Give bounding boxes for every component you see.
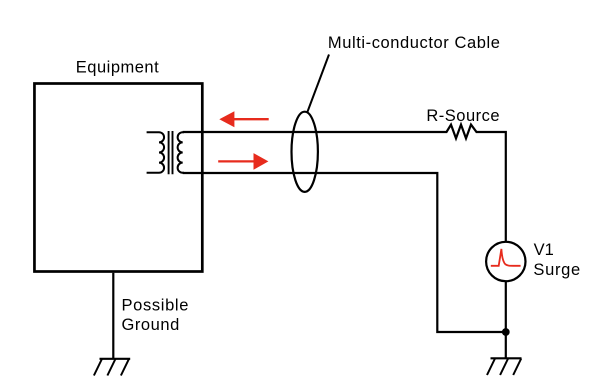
svg-text:R-Source: R-Source bbox=[426, 107, 500, 125]
svg-text:Surge: Surge bbox=[533, 261, 581, 279]
svg-text:V1: V1 bbox=[534, 241, 554, 259]
svg-text:Possible: Possible bbox=[122, 296, 190, 314]
svg-text:Equipment: Equipment bbox=[76, 58, 159, 76]
svg-text:Ground: Ground bbox=[122, 316, 180, 334]
svg-text:Multi-conductor Cable: Multi-conductor Cable bbox=[328, 34, 501, 52]
